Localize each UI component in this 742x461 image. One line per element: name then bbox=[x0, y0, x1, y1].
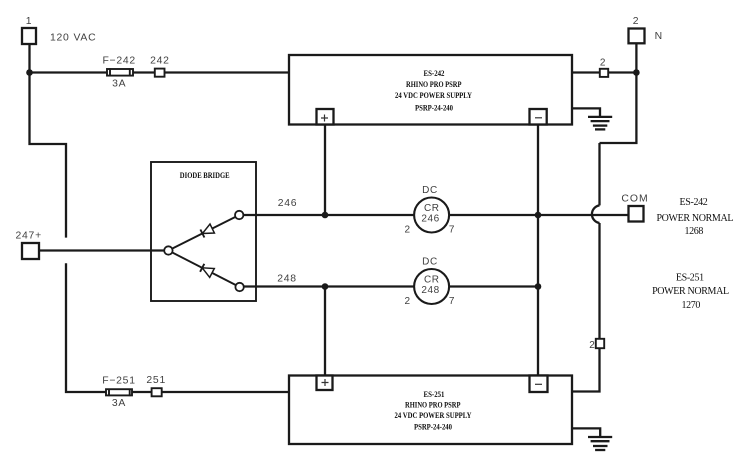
svg-text:DIODE BRIDGE: DIODE BRIDGE bbox=[180, 171, 230, 180]
svg-text:DC: DC bbox=[422, 185, 438, 196]
svg-text:7: 7 bbox=[449, 224, 455, 235]
svg-text:N: N bbox=[655, 31, 663, 42]
svg-text:ES-242: ES-242 bbox=[424, 69, 445, 78]
svg-text:ES-242: ES-242 bbox=[680, 197, 708, 208]
svg-text:3A: 3A bbox=[112, 79, 126, 90]
svg-text:2: 2 bbox=[589, 340, 595, 351]
svg-text:2: 2 bbox=[405, 296, 411, 307]
svg-text:ES-251: ES-251 bbox=[424, 390, 445, 399]
svg-text:248: 248 bbox=[277, 274, 297, 285]
svg-text:247+: 247+ bbox=[15, 231, 41, 242]
svg-text:246: 246 bbox=[421, 214, 440, 225]
svg-text:7: 7 bbox=[449, 296, 455, 307]
svg-text:2: 2 bbox=[405, 224, 411, 235]
svg-text:1270: 1270 bbox=[681, 300, 700, 311]
svg-text:PSRP-24-240: PSRP-24-240 bbox=[415, 104, 453, 113]
svg-text:120: 120 bbox=[50, 33, 70, 44]
svg-text:24 VDC POWER SUPPLY: 24 VDC POWER SUPPLY bbox=[395, 91, 472, 100]
svg-text:246: 246 bbox=[278, 198, 298, 209]
svg-text:1268: 1268 bbox=[684, 226, 703, 237]
svg-text:VAC: VAC bbox=[74, 33, 97, 44]
svg-text:POWER NORMAL: POWER NORMAL bbox=[652, 286, 729, 297]
svg-text:242: 242 bbox=[150, 56, 170, 67]
svg-text:ES-251: ES-251 bbox=[676, 273, 704, 284]
svg-text:CR: CR bbox=[424, 203, 440, 214]
svg-text:2: 2 bbox=[633, 16, 640, 27]
svg-text:24 VDC POWER SUPPLY: 24 VDC POWER SUPPLY bbox=[395, 411, 472, 420]
svg-text:3A: 3A bbox=[112, 398, 126, 409]
svg-text:F−251: F−251 bbox=[102, 376, 136, 387]
svg-text:COM: COM bbox=[621, 194, 648, 205]
svg-text:CR: CR bbox=[424, 275, 440, 286]
svg-text:RHINO PRO PSRP: RHINO PRO PSRP bbox=[405, 401, 461, 410]
svg-text:1: 1 bbox=[26, 16, 33, 27]
svg-text:DC: DC bbox=[422, 257, 438, 268]
svg-text:2: 2 bbox=[600, 58, 606, 69]
svg-text:PSRP-24-240: PSRP-24-240 bbox=[414, 423, 452, 432]
svg-text:RHINO PRO PSRP: RHINO PRO PSRP bbox=[406, 80, 462, 89]
svg-text:F−242: F−242 bbox=[102, 56, 136, 67]
svg-text:POWER NORMAL: POWER NORMAL bbox=[656, 213, 733, 224]
svg-text:248: 248 bbox=[421, 285, 440, 296]
svg-text:251: 251 bbox=[146, 375, 166, 386]
